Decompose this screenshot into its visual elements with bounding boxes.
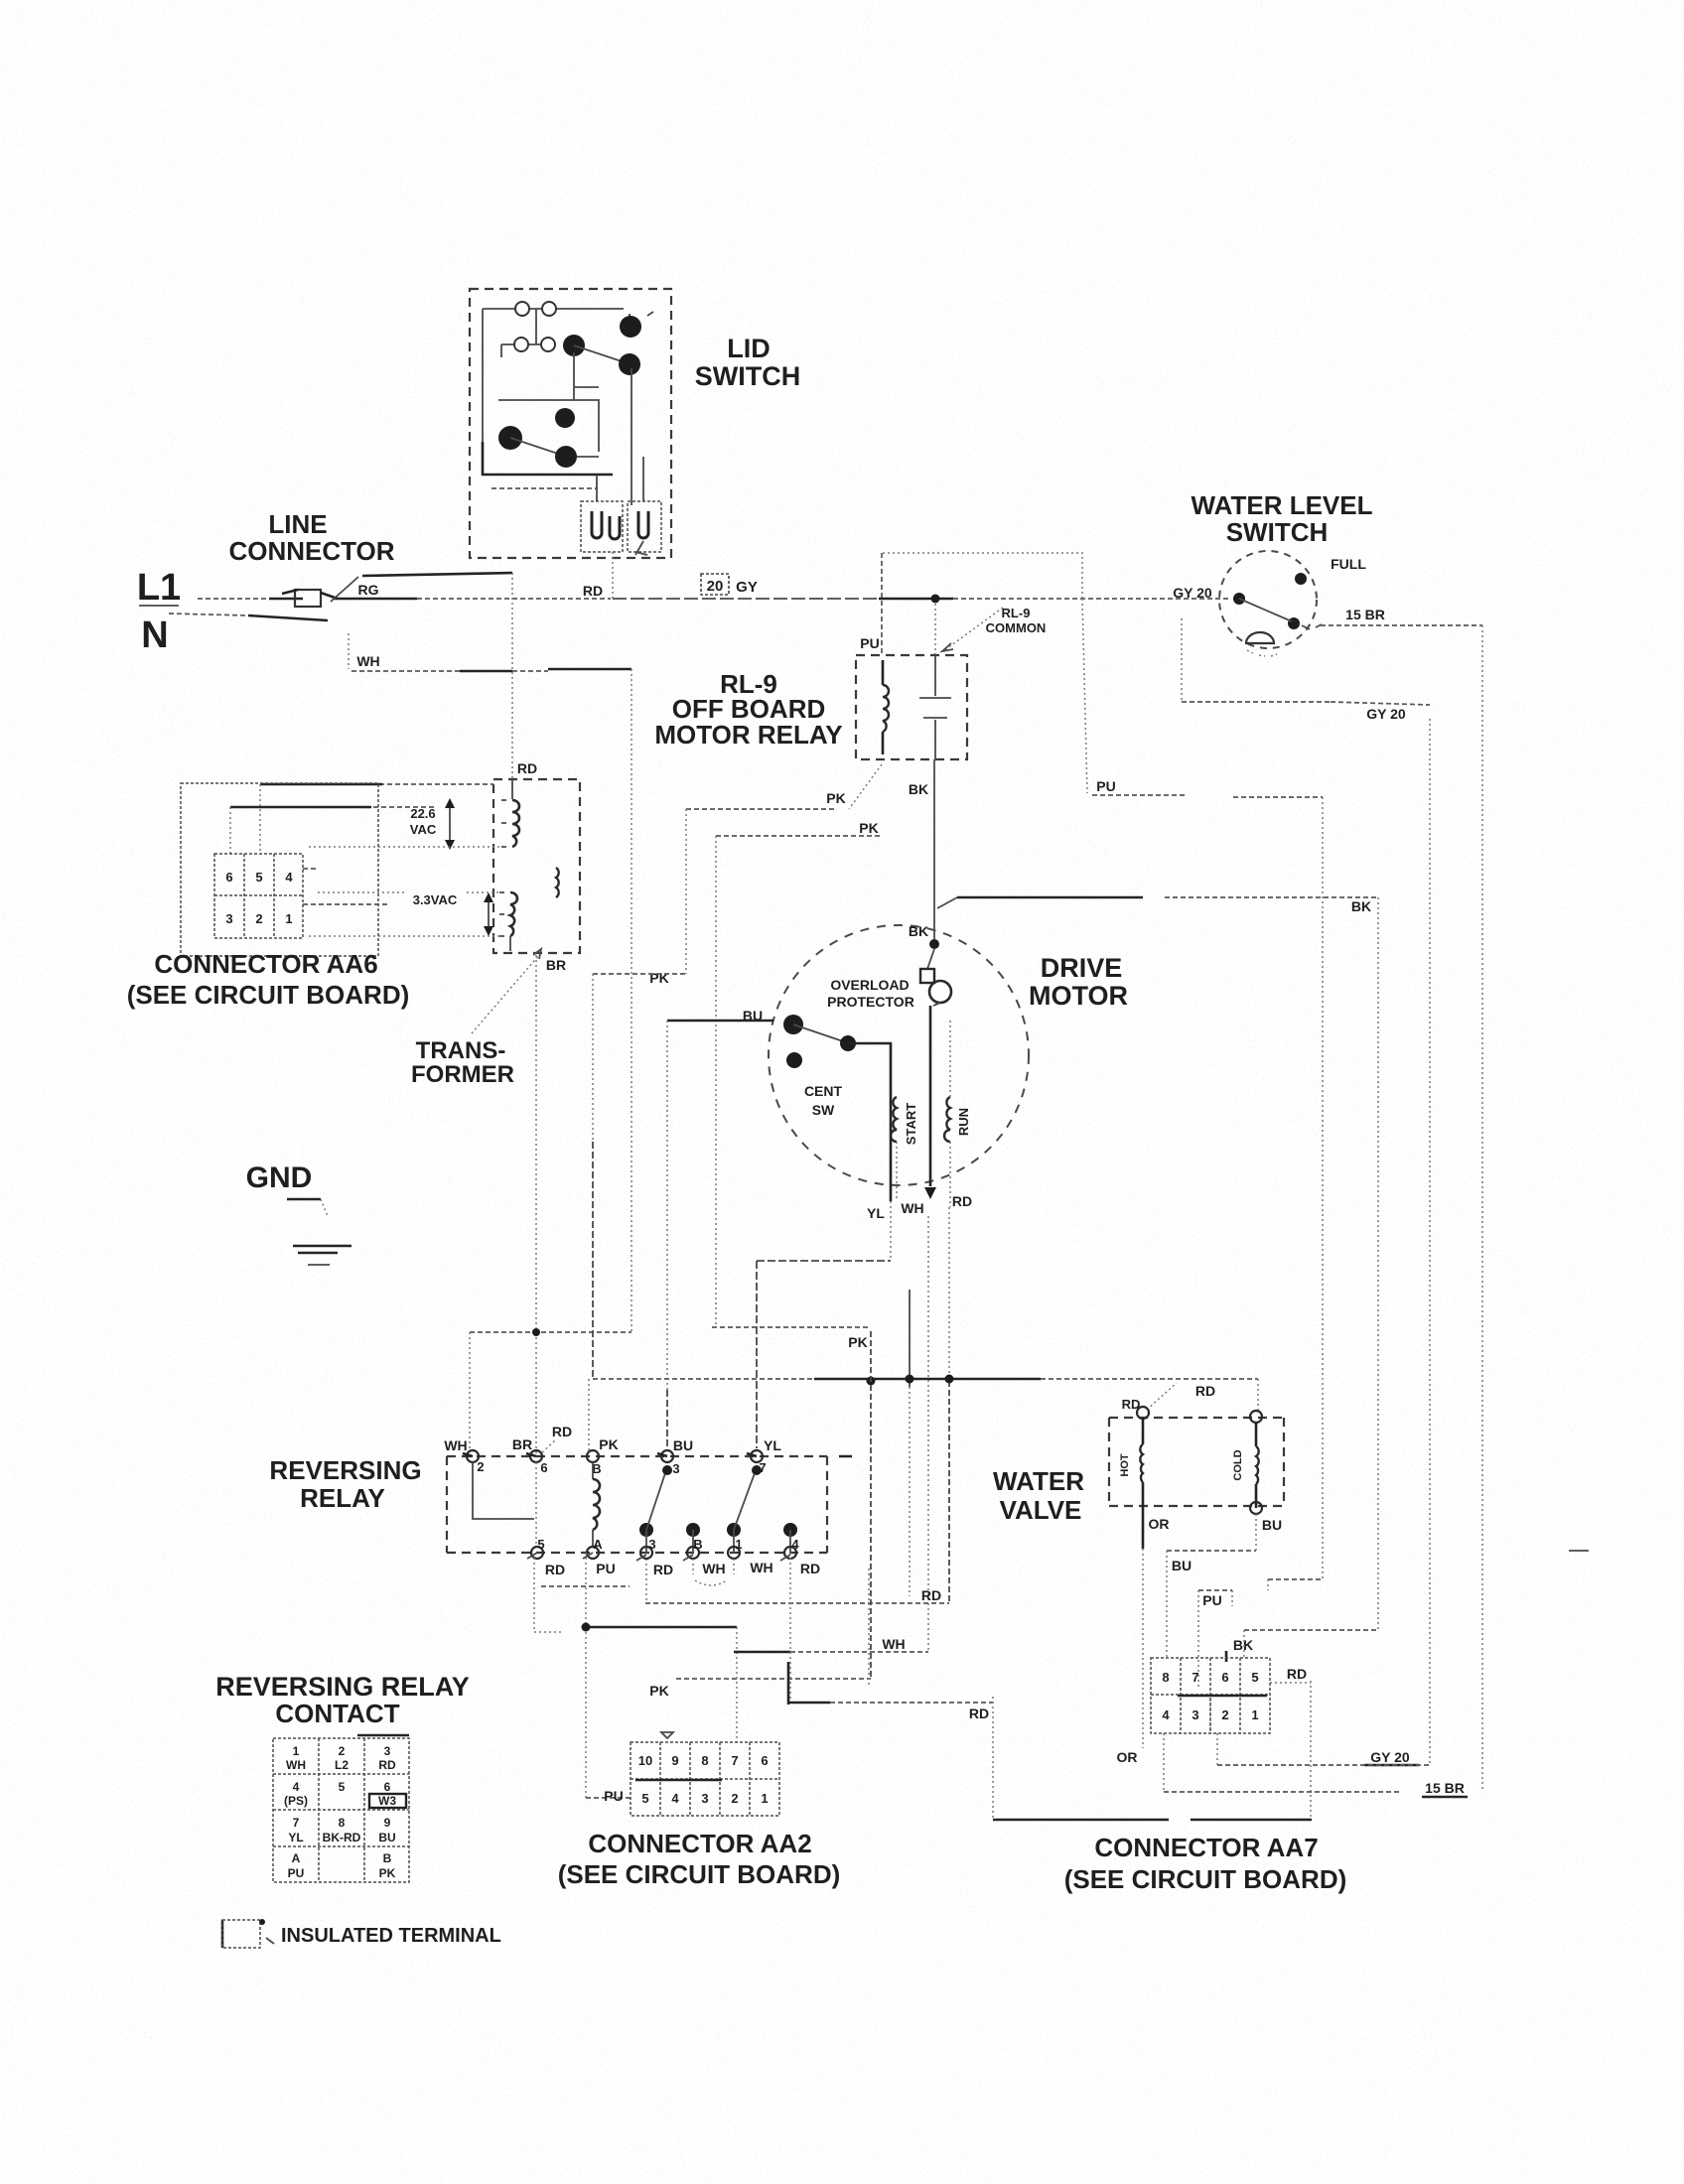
wire: long PK horizontal to water valve	[593, 1375, 1258, 1386]
15 BR wire into AA7	[1164, 1733, 1468, 1797]
wire: lid switch drop to L1 bus (RD)	[583, 552, 613, 599]
water valve cold solenoid	[1232, 1411, 1262, 1514]
3.3 VAC label with arrows	[413, 892, 493, 936]
water level switch label	[1192, 490, 1373, 547]
transformer (dashed box)	[493, 779, 580, 953]
wire: BK relay to motor	[909, 759, 939, 949]
drive motor body (dashed circle)	[769, 925, 1029, 1185]
BU label and wire into motor	[667, 1008, 773, 1450]
wire: PK second branch	[712, 820, 882, 1327]
wires: transformer taps to AA6	[230, 784, 501, 936]
wire: connector jump up-over to transformer (RD)	[362, 573, 537, 779]
BK label at motor top	[909, 923, 928, 939]
connector AA6 (dashed outer box)	[181, 783, 378, 956]
wire: bus up-over to RL-9 common	[882, 553, 1082, 655]
RG leader label at line connector	[331, 577, 379, 602]
lid switch enclosure (dashed box)	[470, 289, 671, 558]
water valve label	[993, 1466, 1084, 1525]
centrifugal switch	[783, 1015, 891, 1201]
insulated terminal legend	[222, 1919, 501, 1948]
PU label at relay	[860, 635, 879, 651]
wire: BK from motor right side	[937, 897, 1378, 1630]
RL-9 COMMON label	[942, 606, 1046, 651]
transformer secondary coil lower	[499, 892, 517, 951]
water valve (dashed box)	[1109, 1418, 1284, 1506]
wire: L1 bus	[198, 598, 1231, 600]
BR label under transformer	[532, 955, 566, 1456]
GY 20 label on bus	[1173, 585, 1212, 601]
lid switch connector terminals	[581, 457, 661, 555]
motor center lead	[924, 1006, 936, 1199]
transformer secondary coil upper	[501, 779, 519, 847]
reversing relay (dashed box)	[447, 1456, 827, 1553]
relay bottom wire labels	[545, 1560, 820, 1577]
wire: RD feed corner into water valve	[1122, 1379, 1258, 1412]
reversing relay label	[269, 1455, 421, 1513]
trans-former label with leader	[411, 949, 541, 1088]
relay RL-9 (dashed box)	[856, 655, 967, 759]
BU label and wire from valve	[1167, 1514, 1282, 1658]
run winding	[944, 1021, 971, 1207]
connector AA6 label	[127, 949, 410, 1010]
start winding	[891, 1097, 918, 1201]
BK wire into AA7	[1226, 1630, 1378, 1662]
wire: N line	[169, 614, 328, 620]
connector AA7 label	[1064, 1833, 1347, 1894]
ground symbol	[287, 1199, 351, 1265]
water level switch (dashed circle body)	[1219, 551, 1317, 656]
relay RL-9 contact	[919, 655, 951, 759]
RD label at AA7 pin 5	[1270, 1666, 1311, 1683]
wire: 15 BR out of switch	[1302, 607, 1482, 1792]
YL WH RD labels at motor bottom	[867, 1193, 972, 1221]
N terminal label	[141, 614, 168, 656]
connector AA6 pin grid	[214, 854, 303, 938]
connector AA2 pin grid	[631, 1732, 779, 1816]
relay top terminals	[463, 1450, 852, 1462]
stray mark right margin	[1569, 1550, 1589, 1552]
wire: PK from relay bottom-left	[589, 764, 882, 1451]
reversing relay contact label	[215, 1672, 470, 1728]
L1 terminal label	[137, 567, 181, 609]
[20] GY marker on bus	[701, 574, 758, 596]
transformer primary coil	[556, 868, 559, 897]
22.6 VAC label with arrows	[410, 798, 455, 850]
relay bottom terminals	[527, 1537, 799, 1561]
wire: parallel drop	[909, 1290, 911, 1596]
wire: RD motor down	[645, 1207, 949, 1603]
lid switch label	[695, 334, 800, 391]
reversing relay contact table	[273, 1735, 409, 1882]
connector AA7 pin grid	[1151, 1658, 1270, 1733]
PK label and drop at 877	[649, 1331, 871, 1699]
relay RL-9 coil	[883, 660, 889, 754]
relay internal link T2	[473, 1462, 536, 1547]
PU wire into AA7	[1198, 1579, 1323, 1733]
overload protector label	[827, 977, 914, 1010]
connector AA2 label	[558, 1829, 841, 1889]
wire: GY 20 down-right path	[1182, 618, 1430, 1765]
CENT SW label	[804, 1083, 843, 1118]
overload protector symbol	[920, 949, 951, 1006]
wire: WH motor down	[927, 1216, 929, 1652]
line connector symbol	[269, 590, 338, 607]
line connector label	[228, 509, 394, 566]
wire: YL motor to reversing relay	[757, 1201, 891, 1448]
FULL label	[1331, 556, 1366, 572]
OR label and wire from valve	[1117, 1510, 1170, 1765]
relay terminal labels top	[444, 1424, 781, 1476]
drive motor label	[1029, 953, 1128, 1011]
wire: WH from N to reversing relay	[349, 633, 631, 1448]
wire: PU right branch from bus	[1082, 599, 1323, 1579]
GY 20 wire into AA7	[1217, 1733, 1430, 1765]
relay coil	[593, 1462, 600, 1547]
RL-9 off board motor relay label	[654, 669, 842, 750]
lid switch contacts (internal wiring)	[483, 302, 653, 505]
wires below relay	[534, 1553, 1312, 1820]
water valve hot solenoid	[1119, 1407, 1149, 1510]
GND label	[246, 1161, 313, 1194]
relay switch arms	[639, 1465, 797, 1553]
